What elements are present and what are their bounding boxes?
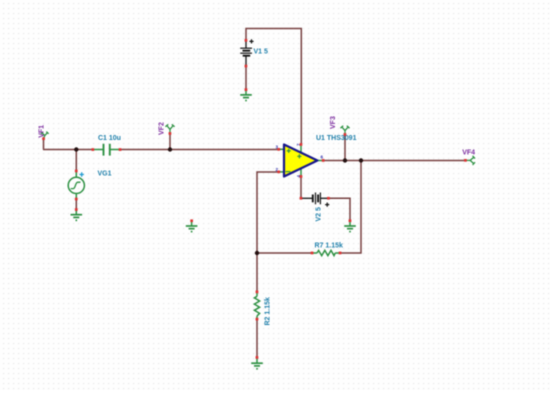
- ground (R2): [251, 358, 263, 369]
- wire V1 top to op-amp pin 7: [246, 29, 301, 145]
- op-amp U1 THS3091: [279, 144, 323, 176]
- pin dot C1 right: [119, 148, 122, 151]
- pin dot V2 right: [327, 197, 330, 200]
- pin dot floating ground: [190, 219, 193, 222]
- test point VF1: [41, 132, 49, 139]
- wire output (pin 6 to VF4): [323, 160, 466, 162]
- test point VF4: [466, 156, 475, 165]
- svg-text:V1 5: V1 5: [254, 49, 269, 56]
- pin dot VF3: [344, 133, 347, 136]
- svg-text:C1 10u: C1 10u: [98, 135, 121, 142]
- junction VF2: [168, 147, 172, 151]
- pin dot C1 left: [92, 148, 95, 151]
- junction VF3: [343, 158, 347, 162]
- resistor R7: [312, 250, 340, 255]
- svg-text:VF2: VF2: [158, 122, 165, 135]
- battery V2: [301, 193, 329, 205]
- pin dot R2 ground: [256, 356, 259, 359]
- svg-text:VF1: VF1: [38, 125, 45, 138]
- pin dot VF2: [169, 132, 172, 135]
- wire V2 to ground: [329, 198, 350, 220]
- pin dot R7 left: [311, 252, 314, 255]
- pin dot V1 ground: [245, 88, 248, 91]
- svg-text:VF4: VF4: [462, 150, 475, 157]
- pin dot VG1 bottom: [75, 198, 78, 201]
- pin dot op-amp pin 7: [300, 143, 303, 146]
- pin dot VG1 top: [75, 170, 78, 173]
- wire VF3 stub: [344, 134, 346, 161]
- junction right branch: [359, 158, 363, 162]
- svg-text:V2 5: V2 5: [315, 207, 322, 222]
- pin dot op-amp pin 6: [322, 159, 325, 162]
- test point VF2: [165, 124, 174, 133]
- svg-text:R2 1.15k: R2 1.15k: [264, 297, 271, 326]
- pin dot VF4: [464, 159, 467, 162]
- pin dot V1 bottom: [245, 65, 248, 68]
- test point VF3: [340, 126, 349, 135]
- junction VG1 branch: [74, 147, 78, 151]
- pin dot op-amp pin 3: [277, 148, 280, 151]
- ground (floating mid): [186, 221, 198, 232]
- wire main input left (VF1 to C1): [43, 149, 93, 151]
- svg-text:VF3: VF3: [330, 116, 337, 129]
- pin dot V2 ground: [349, 219, 352, 222]
- wire right branch (output down to R7): [340, 161, 361, 254]
- plus mark V2: [325, 203, 329, 207]
- wire VG1 to ground: [75, 199, 77, 210]
- svg-text:VG1: VG1: [98, 171, 112, 178]
- wire VF1 stub: [43, 139, 45, 150]
- resistor R2: [254, 292, 259, 319]
- pin dot op-amp pin 2: [277, 171, 280, 174]
- ground (V1): [240, 90, 252, 101]
- pin dot VF1: [42, 137, 45, 140]
- svg-text:R7 1.15k: R7 1.15k: [315, 243, 344, 250]
- capacitor C1: [93, 144, 120, 156]
- pin dot R7 right: [339, 252, 342, 255]
- pin dot R2 top: [256, 291, 259, 294]
- wire V1 bottom to ground: [245, 66, 247, 90]
- pin dot R2 bottom: [256, 318, 259, 321]
- plus mark VG1: [80, 172, 84, 176]
- svg-text:U1 THS3091: U1 THS3091: [316, 135, 357, 142]
- pin dot VG1 ground: [75, 208, 78, 211]
- wire op-amp pin 4 to V2: [300, 176, 302, 198]
- pin dot V2 left: [300, 197, 303, 200]
- wire main input right (C1 to op-amp pin 3): [120, 149, 279, 151]
- ground (VG1): [71, 210, 83, 221]
- battery V1: [240, 40, 252, 66]
- wire R7 to feedback node: [257, 252, 312, 254]
- wire VG1 branch: [75, 150, 77, 171]
- ground (V2): [344, 221, 356, 232]
- pin dot V1 top: [245, 39, 248, 42]
- wire feedback (pin 2 down to R2): [257, 172, 279, 292]
- wire VF2 stub: [169, 134, 171, 150]
- junction feedback node: [255, 251, 259, 255]
- pin dot op-amp pin 4: [300, 175, 303, 178]
- plus mark V1: [249, 39, 253, 43]
- wire R2 to ground: [256, 319, 258, 358]
- source VG1: [68, 171, 84, 199]
